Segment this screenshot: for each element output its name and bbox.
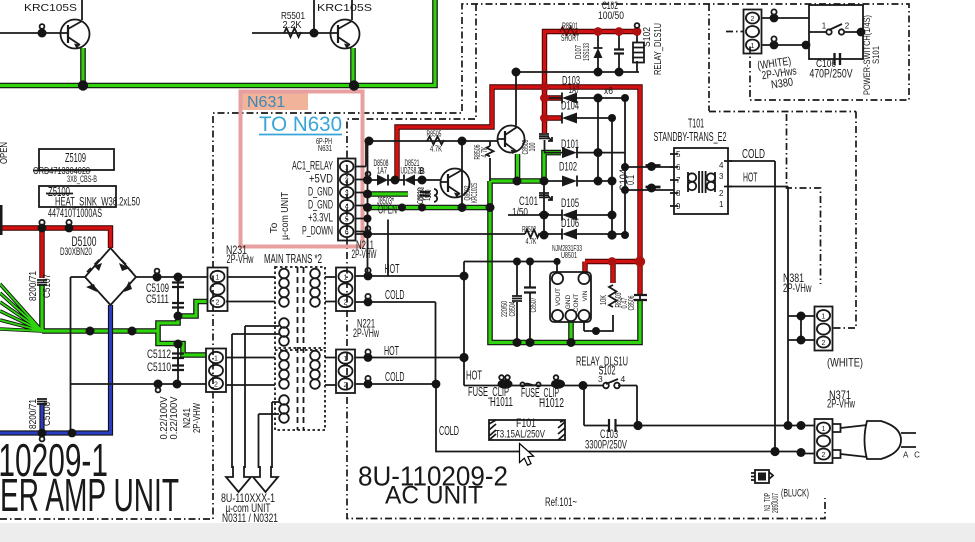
svg-text:R8502: R8502 bbox=[522, 224, 536, 234]
svg-text:(BLUCK): (BLUCK) bbox=[781, 488, 809, 500]
svg-text:C8507: C8507 bbox=[529, 297, 538, 312]
svg-text:2: 2 bbox=[344, 382, 348, 389]
svg-text:2P-VHw: 2P-VHw bbox=[227, 252, 254, 266]
svg-text:2: 2 bbox=[751, 16, 755, 23]
svg-text:2: 2 bbox=[216, 300, 220, 307]
svg-text:MAIN TRANS *2: MAIN TRANS *2 bbox=[264, 252, 322, 266]
svg-text:D101: D101 bbox=[561, 137, 579, 151]
svg-text:2: 2 bbox=[214, 382, 218, 389]
svg-text:P_DOWN: P_DOWN bbox=[302, 226, 333, 238]
svg-text:x6: x6 bbox=[604, 86, 613, 97]
svg-text:COLD: COLD bbox=[742, 147, 765, 161]
svg-text:R8505: R8505 bbox=[427, 129, 442, 139]
svg-text:U8501: U8501 bbox=[561, 251, 577, 260]
svg-text:C5107: C5107 bbox=[42, 274, 53, 298]
svg-text:HOT: HOT bbox=[743, 171, 758, 185]
svg-text:C5108: C5108 bbox=[42, 402, 53, 426]
svg-text:C5111: C5111 bbox=[146, 292, 169, 306]
svg-text:4: 4 bbox=[621, 374, 626, 384]
svg-text:+3.3VL: +3.3VL bbox=[308, 213, 333, 225]
svg-text:OPEN: OPEN bbox=[378, 205, 397, 217]
svg-text:C8504: C8504 bbox=[508, 301, 517, 316]
svg-text:GND: GND bbox=[565, 294, 572, 309]
svg-text:1: 1 bbox=[719, 200, 724, 209]
svg-text:HEAT_SINK_W36.2xL50: HEAT_SINK_W36.2xL50 bbox=[55, 195, 140, 209]
svg-text:TO N630: TO N630 bbox=[259, 112, 342, 136]
svg-text:2: 2 bbox=[719, 189, 724, 198]
svg-text:COLD: COLD bbox=[385, 288, 405, 302]
svg-text:A C: A C bbox=[903, 451, 922, 460]
svg-text:ER AMP UNIT: ER AMP UNIT bbox=[0, 469, 179, 521]
svg-text:OPEN: OPEN bbox=[0, 142, 10, 164]
svg-text:1: 1 bbox=[822, 314, 826, 321]
svg-text:100: 100 bbox=[528, 142, 537, 151]
svg-text:6: 6 bbox=[676, 163, 681, 172]
svg-text:HOT: HOT bbox=[385, 262, 400, 276]
svg-text:KRC102S: KRC102S bbox=[470, 183, 479, 203]
svg-text:5: 5 bbox=[345, 216, 349, 223]
svg-text:1A7: 1A7 bbox=[377, 166, 387, 176]
svg-text:Z5109: Z5109 bbox=[65, 150, 86, 165]
svg-text:2P-VHw: 2P-VHw bbox=[827, 397, 855, 411]
svg-text:1: 1 bbox=[216, 275, 220, 282]
svg-text:T3.15AL/250V: T3.15AL/250V bbox=[495, 429, 545, 441]
svg-text:D106: D106 bbox=[561, 216, 579, 230]
svg-text:N631: N631 bbox=[318, 144, 332, 153]
svg-text:10K: 10K bbox=[599, 295, 608, 305]
svg-text:3: 3 bbox=[345, 190, 349, 197]
svg-text:N631: N631 bbox=[247, 94, 285, 111]
svg-text:STANDBY-TRANS_E2: STANDBY-TRANS_E2 bbox=[654, 130, 727, 144]
svg-text:C5112: C5112 bbox=[147, 347, 171, 361]
svg-text:1: 1 bbox=[751, 43, 755, 50]
svg-text:COLD: COLD bbox=[439, 424, 459, 438]
svg-text:8200/71: 8200/71 bbox=[28, 399, 39, 429]
svg-text:D102: D102 bbox=[559, 160, 577, 174]
svg-text:2: 2 bbox=[822, 452, 826, 459]
svg-text:2P-VHw: 2P-VHw bbox=[783, 281, 812, 295]
svg-text:1/50: 1/50 bbox=[512, 207, 528, 219]
svg-text:SHORT: SHORT bbox=[561, 33, 579, 43]
svg-text:µ-com UNIT: µ-com UNIT bbox=[280, 192, 291, 240]
svg-text:CONT: CONT bbox=[573, 294, 580, 312]
svg-text:R8501: R8501 bbox=[562, 21, 578, 31]
svg-text:2: 2 bbox=[345, 177, 349, 184]
svg-text:HOT: HOT bbox=[466, 369, 482, 383]
svg-text:0.22/100V: 0.22/100V bbox=[169, 396, 180, 439]
svg-text:4: 4 bbox=[719, 161, 724, 170]
svg-text:2: 2 bbox=[344, 300, 348, 307]
svg-text:3X8_CBS-B: 3X8_CBS-B bbox=[67, 174, 97, 185]
svg-text:D105: D105 bbox=[561, 196, 579, 210]
svg-text:1A7: 1A7 bbox=[569, 85, 580, 95]
svg-text:Ref.101~: Ref.101~ bbox=[545, 497, 577, 509]
svg-text:D30XBN20: D30XBN20 bbox=[60, 246, 92, 258]
svg-text:2.2K: 2.2K bbox=[283, 19, 302, 31]
svg-text:H1011: H1011 bbox=[490, 395, 513, 409]
svg-text:D104: D104 bbox=[561, 99, 579, 113]
svg-text:2P-VHW: 2P-VHW bbox=[192, 403, 203, 433]
svg-text:5: 5 bbox=[676, 150, 681, 159]
svg-text:3: 3 bbox=[598, 374, 603, 384]
svg-text:3: 3 bbox=[719, 172, 724, 181]
svg-text:D_GND: D_GND bbox=[308, 187, 333, 199]
svg-text:4: 4 bbox=[345, 203, 349, 210]
svg-text:2P-VHw: 2P-VHw bbox=[353, 326, 379, 340]
svg-text:C8506: C8506 bbox=[627, 295, 636, 310]
svg-text:(WHITE): (WHITE) bbox=[827, 356, 863, 370]
svg-text:1: 1 bbox=[822, 426, 826, 433]
svg-text:4.7K: 4.7K bbox=[430, 144, 442, 154]
svg-text:8: 8 bbox=[676, 189, 681, 198]
svg-text:2P-VHW: 2P-VHW bbox=[352, 247, 377, 261]
svg-text:VIN: VIN bbox=[582, 290, 589, 301]
svg-text:100/50: 100/50 bbox=[598, 10, 624, 22]
svg-text:6: 6 bbox=[345, 229, 349, 236]
svg-text:KRC105S: KRC105S bbox=[24, 2, 77, 14]
svg-text:+5VD: +5VD bbox=[309, 174, 333, 186]
svg-text:COLD: COLD bbox=[385, 370, 405, 384]
svg-text:1SS133: 1SS133 bbox=[582, 43, 591, 61]
svg-text:100: 100 bbox=[424, 189, 433, 198]
svg-text:HOT: HOT bbox=[384, 344, 399, 358]
svg-text:AC1_RELAY: AC1_RELAY bbox=[292, 161, 333, 173]
svg-text:H1012: H1012 bbox=[539, 396, 564, 410]
svg-text:AC UNIT: AC UNIT bbox=[385, 482, 483, 510]
svg-text:8200/71: 8200/71 bbox=[28, 271, 39, 301]
svg-text:To: To bbox=[269, 222, 280, 233]
svg-text:470P/250V: 470P/250V bbox=[810, 69, 853, 81]
svg-text:1: 1 bbox=[344, 356, 348, 363]
svg-text:VOUT: VOUT bbox=[555, 288, 562, 306]
svg-text:S101: S101 bbox=[871, 46, 882, 64]
svg-text:1: 1 bbox=[214, 356, 218, 363]
svg-text:1: 1 bbox=[822, 22, 827, 31]
svg-text:2: 2 bbox=[822, 340, 826, 347]
svg-text:D_GND: D_GND bbox=[308, 200, 333, 212]
svg-text:1: 1 bbox=[345, 164, 349, 171]
svg-text:2: 2 bbox=[845, 22, 850, 31]
svg-text:2850U07: 2850U07 bbox=[771, 493, 780, 513]
svg-text:B: B bbox=[419, 166, 425, 176]
svg-text:RELAY_DLS1U: RELAY_DLS1U bbox=[652, 23, 664, 75]
svg-text:0.1: 0.1 bbox=[625, 175, 637, 185]
svg-text:N0311 / N0321: N0311 / N0321 bbox=[222, 511, 278, 525]
svg-text:447410T1000AS: 447410T1000AS bbox=[48, 208, 102, 220]
svg-text:4.7K: 4.7K bbox=[526, 236, 537, 246]
svg-text:7: 7 bbox=[676, 176, 681, 185]
svg-text:3300P/250V: 3300P/250V bbox=[585, 438, 627, 452]
svg-text:T101: T101 bbox=[688, 116, 704, 131]
svg-text:9: 9 bbox=[676, 202, 681, 211]
svg-text:1: 1 bbox=[344, 275, 348, 282]
svg-text:4.7K: 4.7K bbox=[480, 146, 489, 157]
svg-text:KRC105S: KRC105S bbox=[317, 2, 372, 14]
svg-text:C5110: C5110 bbox=[147, 360, 171, 374]
